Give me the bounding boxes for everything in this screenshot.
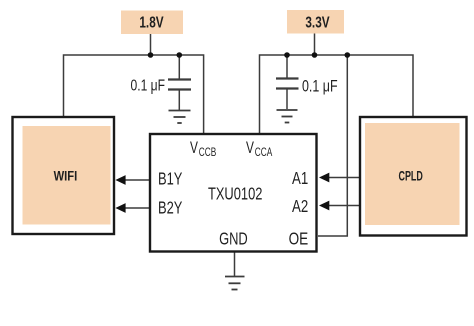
svg-text:0.1 μF: 0.1 μF xyxy=(131,76,165,94)
svg-text:1.8V: 1.8V xyxy=(139,14,164,31)
svg-text:0.1 μF: 0.1 μF xyxy=(302,78,338,96)
svg-text:CCA: CCA xyxy=(255,147,273,160)
svg-text:GND: GND xyxy=(219,230,248,249)
svg-text:CPLD: CPLD xyxy=(399,169,423,184)
svg-text:V: V xyxy=(246,139,254,157)
svg-text:3.3V: 3.3V xyxy=(305,14,330,31)
svg-text:TXU0102: TXU0102 xyxy=(208,185,262,204)
svg-text:B1Y: B1Y xyxy=(158,170,182,189)
svg-text:A1: A1 xyxy=(292,169,308,188)
svg-text:A2: A2 xyxy=(292,197,308,216)
svg-text:B2Y: B2Y xyxy=(158,199,182,218)
svg-text:CCB: CCB xyxy=(199,147,217,160)
svg-text:OE: OE xyxy=(289,230,309,249)
svg-text:V: V xyxy=(190,139,198,157)
svg-text:WIFI: WIFI xyxy=(54,168,78,183)
